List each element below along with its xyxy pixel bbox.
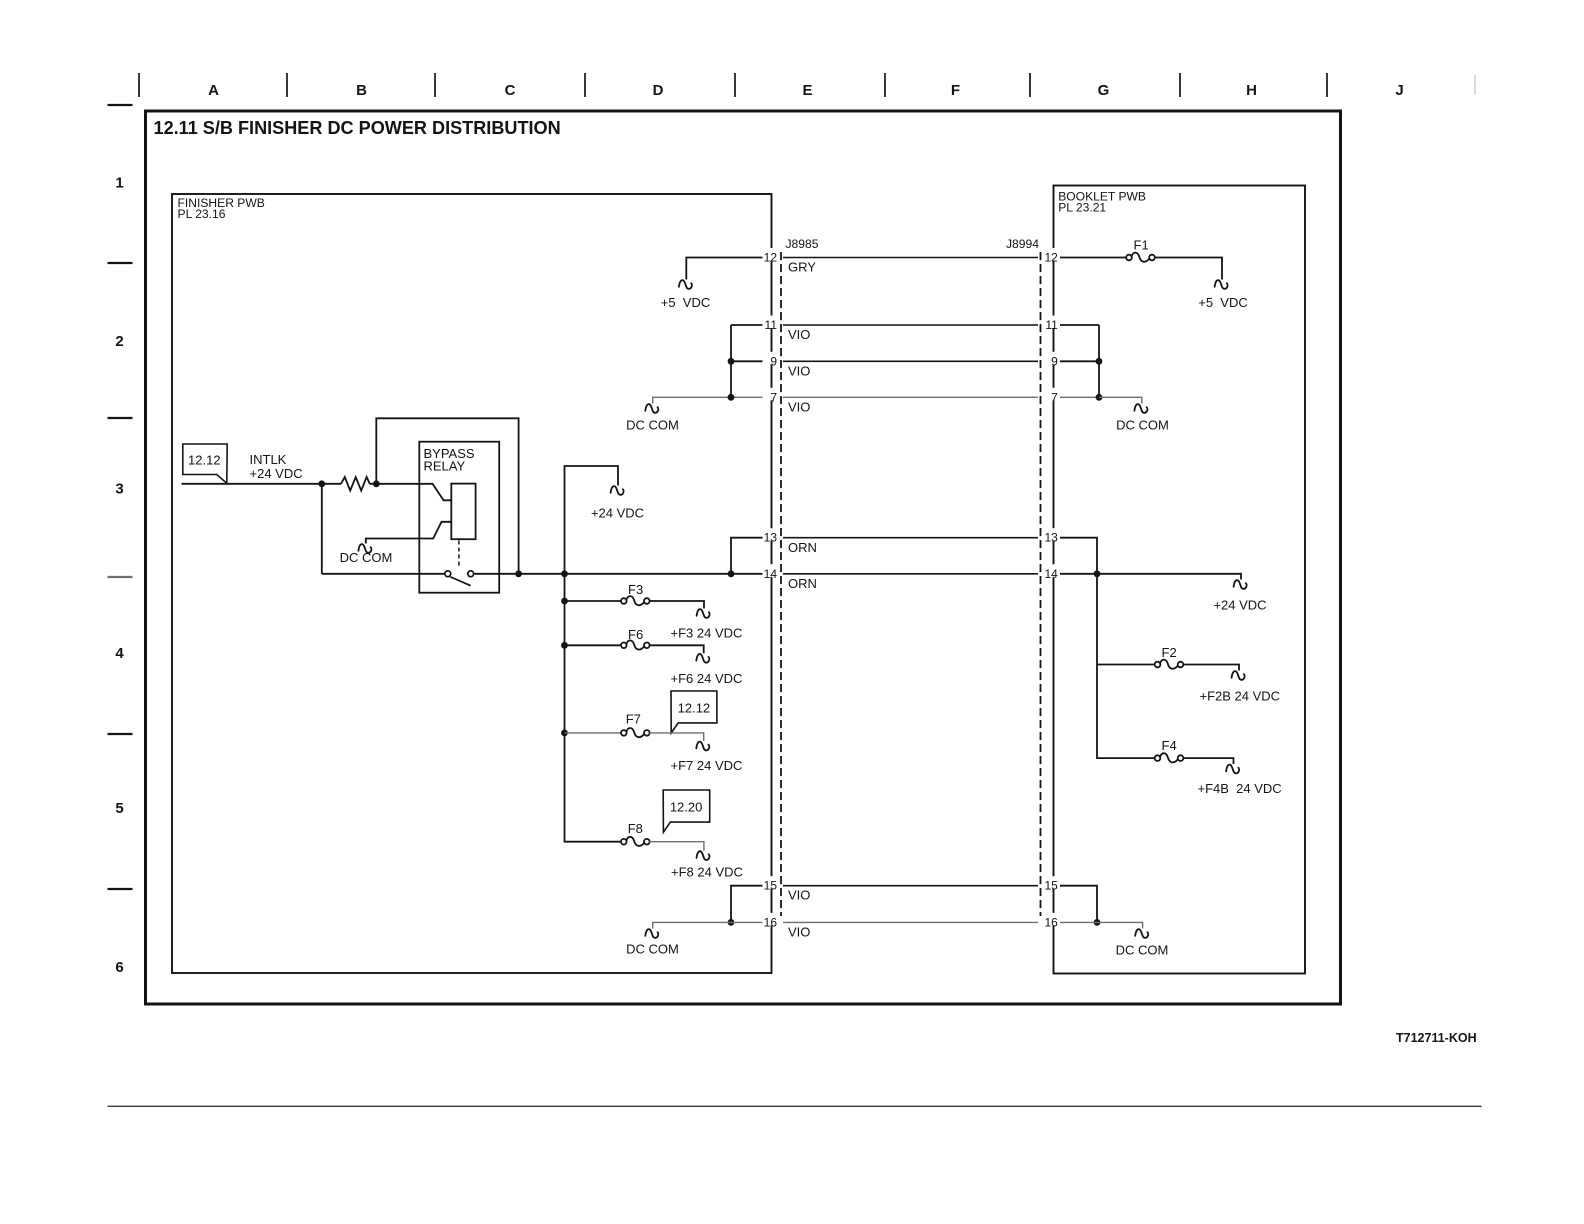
pin 12 number J8985 <box>763 248 780 261</box>
wire F6 output <box>649 645 703 653</box>
relay actuator dashed link <box>458 541 460 567</box>
pin 13 number J8985 <box>763 528 780 541</box>
+F2B 24 VDC symbol <box>1232 671 1245 680</box>
svg-text:12.11 S/B FINISHER DC POWER DI: 12.11 S/B FINISHER DC POWER DISTRIBUTION <box>154 118 561 138</box>
svg-text:PL 23.16: PL 23.16 <box>178 207 226 221</box>
svg-text:J8994: J8994 <box>1006 237 1039 251</box>
+F6 24 VDC symbol <box>696 654 709 663</box>
wire pin13 stub (booklet) <box>1060 538 1098 574</box>
connector J8994 dashed line <box>1040 252 1042 916</box>
svg-text:+F8 24 VDC: +F8 24 VDC <box>671 865 743 880</box>
junction F6 branch <box>561 642 568 649</box>
fuse F6 <box>621 643 627 649</box>
svg-text:VIO: VIO <box>788 924 810 939</box>
svg-text:INTLK: INTLK <box>250 452 287 467</box>
wire bypass loop <box>376 418 518 574</box>
DC COM symbol (finisher bottom) <box>645 929 658 938</box>
junction pin14 node (booklet) <box>1094 570 1101 577</box>
svg-text:ORN: ORN <box>788 576 817 591</box>
relay switch contact left <box>445 571 451 577</box>
svg-text:G: G <box>1098 82 1110 99</box>
junction F7 branch <box>561 730 568 737</box>
wire pin15 stub (booklet) <box>1060 886 1098 923</box>
pin 15 number J8994 <box>1045 876 1061 889</box>
svg-text:F7: F7 <box>626 712 641 727</box>
wire resistor to relay coil <box>370 484 452 501</box>
wire F3 input <box>565 600 622 602</box>
svg-text:J8985: J8985 <box>786 237 819 251</box>
svg-text:H: H <box>1246 82 1257 99</box>
svg-text:9: 9 <box>770 354 777 368</box>
junction pin9 (booklet) <box>1096 358 1103 365</box>
svg-text:+5 VDC: +5 VDC <box>661 295 711 310</box>
svg-text:4: 4 <box>115 645 124 662</box>
svg-text:14: 14 <box>764 567 778 581</box>
svg-text:VIO: VIO <box>788 888 810 903</box>
svg-text:3: 3 <box>115 481 123 498</box>
wire net VIO pin9-pin9 <box>783 360 1038 362</box>
svg-text:+F3 24 VDC: +F3 24 VDC <box>671 625 743 640</box>
svg-text:16: 16 <box>764 915 778 929</box>
wire pin11 stub <box>731 324 763 326</box>
wire pin12 to +5VDC stub <box>686 258 762 280</box>
wire net VIO pin16-pin16 <box>783 921 1038 923</box>
resistor interlock <box>341 477 370 491</box>
svg-text:+F7 24 VDC: +F7 24 VDC <box>671 758 743 773</box>
svg-text:B: B <box>356 82 367 99</box>
wire switch input <box>322 573 445 575</box>
wire F1 output <box>1154 258 1222 280</box>
pin 9 number J8985 <box>763 352 780 365</box>
junction pin7 (finisher) <box>728 394 735 401</box>
wire F4 output <box>1183 758 1234 764</box>
svg-text:7: 7 <box>1051 390 1058 404</box>
svg-text:13: 13 <box>1044 531 1058 545</box>
flag 12.12 F7 pointer <box>671 691 717 733</box>
wire net ORN pin13-pin13 <box>783 537 1038 539</box>
row ruler dashes <box>108 104 133 106</box>
svg-text:+24 VDC: +24 VDC <box>250 466 303 481</box>
pin 11 number J8994 <box>1045 316 1061 329</box>
svg-text:F3: F3 <box>628 582 643 597</box>
svg-text:DC COM: DC COM <box>1116 418 1169 433</box>
svg-text:12.12: 12.12 <box>678 701 711 716</box>
svg-text:VIO: VIO <box>788 399 810 414</box>
junction pin7 (booklet) <box>1096 394 1103 401</box>
relay coil return wire to DC COM <box>366 522 452 544</box>
svg-text:1: 1 <box>115 175 123 192</box>
svg-text:J: J <box>1395 82 1403 99</box>
pin 11 number J8985 <box>763 316 780 329</box>
wire pin16 to DC COM (finisher) <box>653 922 763 928</box>
DC COM symbol (finisher top) <box>645 404 658 413</box>
pin 16 number J8994 <box>1045 913 1061 926</box>
wire F6 input <box>565 644 622 646</box>
svg-text:11: 11 <box>765 318 778 332</box>
svg-text:12.20: 12.20 <box>670 800 703 815</box>
junction pin16 (booklet) <box>1094 919 1101 926</box>
main border frame <box>146 111 1341 1004</box>
pin 14 number J8985 <box>763 564 780 577</box>
pin 13 number J8994 <box>1045 528 1061 541</box>
svg-text:C: C <box>505 82 516 99</box>
junction bypass node <box>515 570 522 577</box>
wire +24VDC stub (finisher) <box>565 466 619 574</box>
wire fuse branch vertical <box>565 574 622 842</box>
wire net VIO pin11-pin11 <box>783 324 1038 326</box>
svg-text:2: 2 <box>115 333 123 350</box>
wire pin9 stub <box>731 360 763 362</box>
svg-text:12.12: 12.12 <box>188 452 221 467</box>
svg-text:+F6 24 VDC: +F6 24 VDC <box>671 671 743 686</box>
junction F3 branch <box>561 598 568 605</box>
svg-text:T712711-KOH: T712711-KOH <box>1396 1031 1477 1045</box>
svg-text:15: 15 <box>764 879 778 893</box>
junction pin13 node (finisher) <box>728 570 735 577</box>
svg-text:14: 14 <box>1044 567 1058 581</box>
svg-text:+F2B 24 VDC: +F2B 24 VDC <box>1200 689 1281 704</box>
svg-text:F6: F6 <box>628 627 643 642</box>
wire switch output to pin14 <box>474 573 763 575</box>
svg-text:VIO: VIO <box>788 327 810 342</box>
wire pin9 stub (booklet) <box>1060 360 1100 362</box>
border frame tick marks (column ruler) <box>138 73 140 97</box>
wire pin13 stub (finisher) <box>731 538 763 574</box>
bottom horizontal rule <box>108 1105 1482 1107</box>
+F7 24 VDC symbol <box>696 742 709 751</box>
pin 7 number J8994 <box>1045 388 1061 401</box>
svg-text:PL 23.21: PL 23.21 <box>1058 201 1106 215</box>
svg-text:12: 12 <box>764 251 778 265</box>
svg-text:DC COM: DC COM <box>340 550 393 565</box>
wire pin7 to DC COM <box>653 397 763 403</box>
fuse F8 <box>621 839 627 845</box>
svg-text:+F4B 24 VDC: +F4B 24 VDC <box>1198 781 1282 796</box>
wire F7 input <box>565 732 622 734</box>
svg-text:DC COM: DC COM <box>626 418 679 433</box>
svg-text:DC COM: DC COM <box>626 941 679 956</box>
fuse F1 <box>1126 255 1132 261</box>
pin 9 number J8994 <box>1045 352 1061 365</box>
svg-text:F4: F4 <box>1162 738 1177 753</box>
svg-text:7: 7 <box>770 390 777 404</box>
connector J8985 dashed line <box>780 252 782 916</box>
svg-text:VIO: VIO <box>788 363 810 378</box>
svg-text:E: E <box>802 82 812 99</box>
wire net VIO pin15-pin15 <box>783 885 1038 887</box>
fuse F4 <box>1155 755 1161 761</box>
wire pin12 to fuse F1 <box>1060 257 1127 259</box>
+F3 24 VDC symbol <box>697 609 710 618</box>
fuse F7 <box>621 730 627 736</box>
wire pin15 stub (finisher) <box>731 886 763 923</box>
svg-text:F8: F8 <box>628 821 643 836</box>
svg-text:15: 15 <box>1044 879 1058 893</box>
+5 VDC return symbol (finisher) <box>679 280 692 289</box>
wire net ORN pin14-pin14 <box>783 573 1038 575</box>
pin 14 number J8994 <box>1045 564 1061 577</box>
svg-text:F: F <box>951 82 960 99</box>
junction pin9 (finisher) <box>728 358 735 365</box>
svg-text:F2: F2 <box>1162 645 1177 660</box>
BYPASS RELAY box <box>419 442 499 593</box>
+F8 24 VDC symbol <box>697 851 710 860</box>
svg-text:11: 11 <box>1045 318 1058 332</box>
wire pin7 to DC COM (booklet) <box>1060 396 1100 398</box>
BOOKLET PWB box <box>1054 186 1306 974</box>
wire pin14 to +24VDC <box>1060 574 1242 580</box>
wire F3 output <box>649 601 704 609</box>
+24 VDC symbol (finisher) <box>611 486 624 495</box>
wire pin11-pin9-pin7 vertical (booklet) <box>1098 325 1100 397</box>
relay switch blade <box>450 577 470 586</box>
junction pin16 (finisher) <box>728 919 735 926</box>
svg-text:GRY: GRY <box>788 260 816 275</box>
fuse F3 <box>621 598 627 604</box>
wire F7 output <box>649 733 703 741</box>
svg-text:9: 9 <box>1051 354 1058 368</box>
relay switch contact right <box>468 571 474 577</box>
+5 VDC symbol (booklet) <box>1215 280 1228 289</box>
junction +24 branch node <box>561 570 568 577</box>
wire F2 output <box>1183 665 1239 671</box>
+F4B 24 VDC symbol <box>1226 765 1239 774</box>
wire net VIO pin7-pin7 <box>783 396 1038 398</box>
wire INTLK feed <box>182 483 342 485</box>
svg-text:13: 13 <box>764 531 778 545</box>
DC COM symbol (booklet bottom) <box>1135 929 1148 938</box>
DC COM symbol (booklet top) <box>1134 404 1147 413</box>
flag 12.20 F8 pointer <box>663 790 710 832</box>
svg-text:+5 VDC: +5 VDC <box>1198 295 1248 310</box>
relay K1 coil <box>451 484 475 540</box>
wire interlock down to switch <box>321 484 323 574</box>
pin 12 number J8994 <box>1045 248 1061 261</box>
svg-text:12: 12 <box>1044 251 1058 265</box>
svg-text:DC COM: DC COM <box>1116 942 1169 957</box>
pin 16 number J8985 <box>763 913 780 926</box>
svg-text:A: A <box>208 82 219 99</box>
wire F8 output <box>649 842 704 851</box>
svg-text:5: 5 <box>115 800 123 817</box>
wire pin11-pin9-pin7 vertical <box>730 325 732 397</box>
pin 15 number J8985 <box>763 876 780 889</box>
pin 7 number J8985 <box>763 388 780 401</box>
wire pin11 stub (booklet) <box>1060 324 1100 326</box>
flag 12.12 interlock pointer <box>183 444 227 483</box>
+24 VDC symbol (booklet) <box>1234 580 1247 589</box>
junction resistor output <box>373 480 380 487</box>
wire F2/F4 branch vertical <box>1097 574 1154 758</box>
svg-text:+24 VDC: +24 VDC <box>1213 598 1266 613</box>
wire F2 input <box>1097 664 1154 666</box>
FINISHER PWB box <box>172 194 772 973</box>
wire pin16 to DC COM (booklet) <box>1060 922 1143 928</box>
svg-text:16: 16 <box>1044 915 1058 929</box>
svg-text:RELAY: RELAY <box>424 459 466 474</box>
junction INTLK node <box>318 480 325 487</box>
wire net GRY pin12-pin12 <box>783 257 1038 259</box>
svg-text:ORN: ORN <box>788 540 817 555</box>
wire pin7 DC COM stub (booklet) <box>1099 397 1142 403</box>
svg-text:6: 6 <box>115 959 123 976</box>
svg-text:D: D <box>653 82 664 99</box>
DC COM symbol (relay) <box>358 544 371 553</box>
svg-text:F1: F1 <box>1134 238 1149 253</box>
fuse F2 <box>1155 662 1161 668</box>
svg-text:+24 VDC: +24 VDC <box>591 505 644 520</box>
